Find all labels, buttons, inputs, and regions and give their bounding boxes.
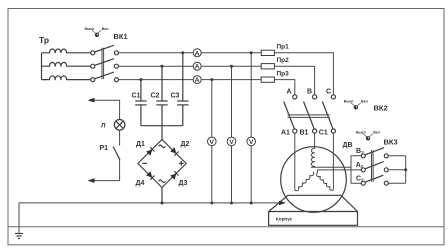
motor base korpus box <box>269 212 358 226</box>
switch BK1 contacts <box>91 51 119 82</box>
voltmeter column 1 <box>211 80 213 203</box>
diode D3 <box>170 171 178 179</box>
svg-text:Д1: Д1 <box>136 141 145 148</box>
terminal A <box>293 95 297 99</box>
motor DV circle <box>281 147 347 213</box>
switch BK2 blades <box>284 102 333 129</box>
svg-text:В1: В1 <box>300 130 309 137</box>
capacitor C2 <box>156 66 167 126</box>
svg-text:Вкл: Вкл <box>361 99 368 103</box>
svg-text:Вкл: Вкл <box>102 27 109 31</box>
BK1 knob <box>85 27 110 37</box>
contact P1 <box>119 130 121 146</box>
switch BK3 blades <box>365 148 384 183</box>
ground symbol <box>15 234 23 239</box>
svg-text:Выкл: Выкл <box>344 99 355 103</box>
terminal A1 <box>293 129 297 133</box>
svg-text:А2: А2 <box>356 162 364 169</box>
BK2 knob <box>344 99 369 109</box>
switch BK1 coupling bar <box>102 48 104 79</box>
diode D4 <box>146 171 154 179</box>
svg-text:С3: С3 <box>171 93 180 100</box>
svg-text:С1: С1 <box>132 93 141 100</box>
motor base trapezoid <box>269 195 358 211</box>
fuse Pr3 <box>261 77 274 82</box>
lamp branch top wire with arrow <box>90 99 120 101</box>
capacitor common bar <box>141 125 183 127</box>
svg-text:Д3: Д3 <box>179 180 188 187</box>
svg-text:Пр2: Пр2 <box>277 57 290 64</box>
svg-text:Выкл: Выкл <box>356 130 367 134</box>
ammeter A3 <box>193 76 201 84</box>
wire phase1 BK1 to fuse <box>118 52 261 54</box>
svg-text:С1: С1 <box>319 130 328 137</box>
svg-text:С2: С2 <box>356 175 364 182</box>
svg-text:Пр3: Пр3 <box>277 71 290 78</box>
svg-text:Пр1: Пр1 <box>277 44 290 51</box>
svg-text:С: С <box>326 89 331 96</box>
terminal B2 <box>361 154 365 158</box>
terminal B1 <box>313 129 317 133</box>
svg-text:В2: В2 <box>356 148 364 155</box>
svg-text:V: V <box>229 139 234 146</box>
diode bridge diamond <box>138 140 186 188</box>
transformer Tp windings <box>42 49 91 80</box>
terminal C2 <box>361 181 365 185</box>
svg-text:В: В <box>307 89 312 96</box>
wire bar to bridge top <box>161 126 163 140</box>
BK3 right contacts <box>384 154 388 185</box>
svg-text:А: А <box>195 77 200 84</box>
diode D1 <box>146 147 154 155</box>
voltmeter column 2 <box>231 66 233 203</box>
svg-text:А1: А1 <box>281 130 290 137</box>
motor winding B1 lead and stator coil <box>311 133 351 167</box>
motor rotor winding right <box>317 173 334 190</box>
motor winding A1 lead <box>294 133 296 190</box>
diode D2 <box>170 147 178 155</box>
svg-text:Л: Л <box>101 123 106 130</box>
terminal B <box>313 95 317 99</box>
motor rotor winding left <box>295 172 314 191</box>
terminal C1 <box>331 129 335 133</box>
svg-text:Выкл: Выкл <box>85 27 96 31</box>
fuse Pr2 <box>261 64 274 69</box>
terminal bracket <box>351 156 361 183</box>
svg-text:Р1: Р1 <box>100 145 109 152</box>
BK3 knob <box>356 130 381 140</box>
switch BK2 coupling bar <box>288 115 330 118</box>
svg-text:Д2: Д2 <box>181 141 190 148</box>
BK3 shorting bus <box>388 156 405 183</box>
bridge polarity marks <box>159 145 166 148</box>
svg-text:Вкл: Вкл <box>373 130 380 134</box>
voltmeter V2 <box>227 137 236 146</box>
svg-text:Корпус: Корпус <box>276 217 293 222</box>
svg-text:V: V <box>210 139 215 146</box>
wire phase3 BK1 to fuse <box>118 79 261 81</box>
ground bus line bottom <box>8 226 444 228</box>
svg-text:V: V <box>249 139 254 146</box>
ammeter A1 <box>193 49 201 57</box>
capacitor C1 <box>135 80 146 126</box>
svg-text:А: А <box>195 64 200 71</box>
earth bus arrow <box>279 201 286 206</box>
fuse Pr1 <box>261 50 274 55</box>
voltmeter V1 <box>208 137 217 146</box>
wire fuse2 to terminal B <box>274 66 314 95</box>
switch BK1 blades <box>95 45 114 79</box>
svg-text:А: А <box>287 89 292 96</box>
svg-text:ВК3: ВК3 <box>384 138 398 147</box>
wire phase2 BK1 to fuse <box>118 65 261 67</box>
wire fuse1 to terminal C <box>274 53 333 95</box>
svg-text:ВК2: ВК2 <box>374 104 388 113</box>
lamp L <box>114 120 125 131</box>
svg-text:ДВ: ДВ <box>343 142 353 149</box>
voltmeter V3 <box>247 137 256 146</box>
svg-text:Д4: Д4 <box>136 180 145 187</box>
terminal A2 <box>361 168 365 172</box>
wire fuse3 to terminal A <box>274 80 294 95</box>
svg-text:С2: С2 <box>151 93 160 100</box>
motor winding C1 lead <box>332 133 334 190</box>
svg-text:А: А <box>195 50 200 57</box>
wire bridge bottom to bus <box>161 188 163 204</box>
svg-text:ВК1: ВК1 <box>114 32 128 41</box>
switch BK3 coupling bar <box>372 150 374 182</box>
motor output wire A2 <box>317 170 361 173</box>
svg-text:Тр: Тр <box>39 35 49 45</box>
terminal C <box>331 95 335 99</box>
earth bus wire <box>19 203 280 234</box>
lamp branch bottom wire with arrow <box>90 160 120 181</box>
ammeter A2 <box>193 62 201 70</box>
voltmeter column 3 <box>250 53 252 203</box>
capacitor C3 <box>177 53 188 126</box>
